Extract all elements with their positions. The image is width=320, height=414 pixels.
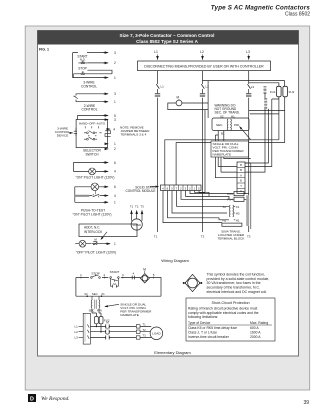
OL contact: [132, 276, 134, 280]
fuse feeder wires: [203, 81, 285, 86]
side rail: [245, 163, 251, 229]
wire L1 drop: [157, 71, 159, 232]
fuse FU4: [234, 197, 244, 201]
control transformer elementary: [92, 296, 99, 300]
svg-text:1: 1: [114, 142, 116, 146]
nested route A: [165, 140, 279, 185]
svg-text:CONTROL MODULE: CONTROL MODULE: [126, 189, 156, 193]
header bar: [38, 31, 299, 45]
load circle elementary: [150, 327, 163, 340]
svg-text:4: 4: [113, 127, 115, 131]
svg-text:T3: T3: [247, 235, 251, 239]
svg-text:PRI: PRI: [97, 309, 102, 313]
svg-text:FU4: FU4: [227, 198, 233, 202]
svg-text:X2: X2: [84, 292, 88, 296]
svg-text:Class 8502 Type SJ Series A: Class 8502 Type SJ Series A: [136, 39, 198, 44]
svg-text:3: 3: [114, 92, 116, 96]
mounting bar: [222, 223, 242, 226]
ADD'L N.C. interlock box: [79, 224, 137, 237]
svg-text:FIG. 1: FIG. 1: [39, 48, 49, 52]
disconnect blade L2: [201, 84, 204, 88]
svg-text:START: START: [110, 270, 120, 274]
svg-text:SEC. OF TRANS.: SEC. OF TRANS.: [215, 111, 240, 115]
fuse FU2: [283, 86, 288, 97]
svg-text:4: 4: [114, 170, 116, 174]
svg-text:H2: H2: [223, 218, 227, 222]
short-circuit protection box: [186, 298, 275, 341]
svg-text:FU2: FU2: [289, 90, 295, 94]
M contact L1: [106, 324, 110, 328]
terminal block vertical: [237, 162, 245, 194]
svg-text:600 A: 600 A: [250, 326, 259, 330]
svg-text:39: 39: [303, 400, 309, 406]
SCHEMATIC: [55, 51, 149, 255]
svg-text:1: 1: [114, 201, 116, 205]
M seal-in contact: [111, 278, 119, 288]
svg-text:L2: L2: [200, 50, 204, 54]
WIRING DIAGRAM RIGHT SECTION: [126, 50, 295, 241]
fuse FU primary B: [99, 317, 103, 324]
svg-text:L3: L3: [251, 85, 255, 89]
svg-text:INTERLOCK: INTERLOCK: [84, 230, 103, 234]
gray bracket bar: [246, 195, 249, 226]
svg-text:Type of Device: Type of Device: [188, 321, 211, 325]
START pushbutton: [78, 61, 87, 64]
M contact bars L2: [200, 94, 205, 96]
svg-text:2000 A: 2000 A: [250, 335, 261, 339]
svg-text:B: B: [240, 179, 242, 183]
HOA selector switch box: [76, 120, 107, 148]
warning text: [215, 104, 240, 115]
control rung loop: [76, 278, 161, 297]
terminal numbers 3,2,1: [114, 51, 116, 80]
legend text: [207, 273, 270, 294]
svg-text:Elementary Diagram: Elementary Diagram: [154, 350, 191, 355]
svg-text:CONTROL: CONTROL: [81, 108, 97, 112]
strip drop wires to fuses: [163, 191, 234, 223]
svg-text:L1: L1: [161, 84, 165, 88]
OL heater L1: [136, 325, 140, 328]
M contact L2: [106, 330, 110, 334]
svg-text:DISCONNECTING MEANS,PROVIDED: DISCONNECTING MEANS,PROVIDED BY USER OR …: [144, 65, 264, 69]
svg-text:1: 1: [114, 100, 116, 104]
transformer primary drops: [92, 309, 101, 317]
svg-text:L2: L2: [74, 330, 78, 334]
svg-text:L1: L1: [154, 50, 158, 54]
T labels elementary: [142, 323, 146, 338]
svg-text:LOAD: LOAD: [133, 223, 142, 227]
svg-text:1: 1: [114, 76, 116, 80]
wire fu2 down: [284, 97, 286, 143]
svg-text:SEC.: SEC.: [216, 123, 223, 127]
single or dual note box: [211, 141, 249, 157]
svg-text:2: 2: [114, 147, 116, 151]
svg-text:B: B: [240, 168, 242, 172]
wire L2 drop: [202, 71, 204, 232]
svg-text:following limitations:: following limitations:: [188, 315, 218, 319]
svg-text:A: A: [240, 173, 242, 177]
svg-text:3: 3: [114, 118, 116, 122]
svg-text:NAMEPLATE: NAMEPLATE: [120, 313, 139, 317]
svg-text:X1: X1: [101, 292, 105, 296]
transformer drop wires: [215, 131, 250, 178]
svg-text:X1: X1: [236, 205, 240, 209]
fuse FU1: [277, 86, 282, 97]
svg-text:FU1: FU1: [270, 90, 276, 94]
transformer winding: [226, 119, 229, 130]
svg-text:electrical interlock and DC ma: electrical interlock and DC magnet coil.: [207, 290, 268, 294]
svg-text:LOAD: LOAD: [152, 332, 161, 336]
OL heater L2: [136, 330, 140, 333]
svg-text:Short-Circuit Protection: Short-Circuit Protection: [211, 301, 249, 305]
logo mark: [28, 394, 36, 402]
50VA transformer winding: [228, 205, 231, 217]
disconnect blade L1: [156, 84, 159, 88]
wire fu to L3 branches: [249, 111, 285, 114]
svg-text:DEVICE: DEVICE: [57, 133, 69, 137]
svg-text:H1: H1: [236, 218, 240, 222]
svg-text:We Respond.: We Respond.: [41, 396, 70, 402]
svg-text:Wiring Diagram: Wiring Diagram: [161, 258, 189, 263]
svg-text:4: 4: [114, 194, 116, 198]
svg-text:C: C: [240, 189, 242, 193]
svg-text:2: 2: [114, 61, 116, 65]
legend coil diamond: [185, 274, 200, 291]
X2 X1 taps on return wire: [86, 295, 88, 297]
svg-text:FU3: FU3: [227, 192, 233, 196]
svg-text:TERMINALS 3 & 4: TERMINALS 3 & 4: [121, 133, 147, 137]
3-wire control circuit wires: [73, 53, 112, 78]
power wires to load: [90, 326, 151, 337]
svg-text:CONTROL: CONTROL: [81, 84, 97, 88]
svg-text:“ON” PILOT LIGHT (120V): “ON” PILOT LIGHT (120V): [73, 213, 112, 217]
svg-text:L2: L2: [206, 84, 210, 88]
tick stack lower: [264, 98, 267, 108]
svg-text:Class 8502: Class 8502: [285, 12, 310, 18]
svg-text:PRI.: PRI.: [234, 123, 240, 127]
SQUARE D LOGO: [28, 394, 309, 406]
svg-text:T1: T1: [154, 235, 158, 239]
svg-text:Max. Rating: Max. Rating: [250, 321, 268, 325]
svg-text:H3: H3: [236, 212, 240, 216]
svg-text:T2: T2: [135, 205, 139, 209]
HOA contacts: [84, 126, 102, 140]
2-wire control circuit: [76, 94, 107, 102]
svg-text:T1: T1: [142, 323, 146, 327]
svg-text:Class J, T or L fuse: Class J, T or L fuse: [188, 331, 217, 335]
control transformer box: [212, 118, 249, 131]
caption 3-wire control device: [55, 126, 70, 137]
M contact L3: [106, 336, 110, 340]
svg-text:N.O.: N.O.: [80, 58, 86, 62]
50VA caption: [218, 230, 246, 241]
svg-text:Size 7, 3-Pole Contactor – Com: Size 7, 3-Pole Contactor – Common Contro…: [120, 33, 215, 38]
svg-text:D: D: [30, 397, 34, 403]
nested route B: [176, 143, 285, 185]
svg-text:SEC: SEC: [89, 309, 95, 313]
svg-text:3: 3: [114, 51, 116, 55]
wire fu1 down: [278, 97, 280, 140]
fuse FU primary A: [95, 317, 99, 324]
svg-text:SEC: SEC: [92, 292, 98, 296]
NC contact with M: [92, 241, 98, 245]
svg-text:T2: T2: [201, 235, 205, 239]
svg-text:Class K5 or RK5 time-delay fus: Class K5 or RK5 time-delay fuse: [188, 326, 237, 330]
svg-text:L3: L3: [246, 50, 250, 54]
svg-text:1600 A: 1600 A: [250, 331, 261, 335]
svg-text:M: M: [177, 96, 180, 100]
jumper link terminals 3-4: [105, 131, 111, 137]
svg-text:HAND–OFF–AUTO: HAND–OFF–AUTO: [79, 122, 106, 126]
svg-text:TERMINAL BLOCK: TERMINAL BLOCK: [218, 237, 246, 241]
svg-text:T3: T3: [140, 205, 144, 209]
svg-text:M: M: [143, 267, 146, 271]
svg-text:L1: L1: [74, 325, 78, 329]
svg-text:NAMEPLATE: NAMEPLATE: [213, 153, 232, 157]
STOP pushbutton: [74, 72, 113, 78]
svg-text:T2: T2: [142, 328, 146, 332]
pri pointer arrow: [240, 127, 251, 140]
svg-text:Inverse-time circuit breaker: Inverse-time circuit breaker: [188, 335, 230, 339]
wire L2 branch pair: [204, 110, 206, 193]
svg-text:Type S AC Magnetic Contactors: Type S AC Magnetic Contactors: [211, 4, 311, 11]
disconnect box elementary: [83, 313, 90, 344]
load circle small: [130, 205, 144, 209]
svg-text:B: B: [240, 163, 242, 167]
svg-text:1: 1: [114, 242, 116, 246]
M contact bars L1: [155, 94, 160, 96]
module terminal strip: [161, 185, 202, 191]
svg-text:L3: L3: [74, 336, 78, 340]
pilot light lamp OFF: [79, 240, 86, 247]
fuse FU3: [234, 192, 244, 196]
svg-text:X2: X2: [223, 205, 227, 209]
solid state module label: [126, 185, 156, 193]
pilot light lamp ON: [89, 168, 96, 175]
white diagram box: [38, 31, 299, 357]
gray field wire: [75, 195, 90, 197]
OFF pilot light circuit: [75, 243, 110, 245]
wire tick branch down: [245, 93, 265, 172]
pilot light lamp push-to-test: [91, 183, 99, 194]
note remove jumper: [120, 126, 149, 137]
svg-text:6: 6: [114, 161, 116, 165]
svg-text:T1: T1: [130, 205, 134, 209]
svg-text:“OFF” PILOT LIGHT (120V): “OFF” PILOT LIGHT (120V): [76, 251, 117, 255]
tick stack upper: [264, 87, 267, 94]
wire L3 drop: [248, 71, 250, 232]
OL heater L3: [136, 336, 140, 339]
left pickup contact: [74, 128, 77, 136]
ON pilot light circuit: [73, 163, 107, 172]
svg-text:6: 6: [114, 185, 116, 189]
disconnect blade L3: [248, 84, 251, 88]
M contact bars L3: [246, 94, 251, 96]
svg-text:B1: B1: [221, 132, 225, 136]
svg-text:SWITCH: SWITCH: [85, 152, 99, 156]
push-to-test pilot circuit: [75, 187, 107, 203]
svg-text:T3: T3: [142, 334, 146, 338]
disconnecting means box: [138, 61, 271, 71]
single or dual note elementary: [120, 302, 152, 317]
BOTTOM SECTION: [74, 258, 275, 355]
wire right inner: [245, 99, 279, 167]
svg-text:“ON” PILOT LIGHT (120V): “ON” PILOT LIGHT (120V): [76, 176, 115, 180]
gray panel: [25, 26, 310, 390]
svg-text:STOP: STOP: [78, 66, 87, 70]
